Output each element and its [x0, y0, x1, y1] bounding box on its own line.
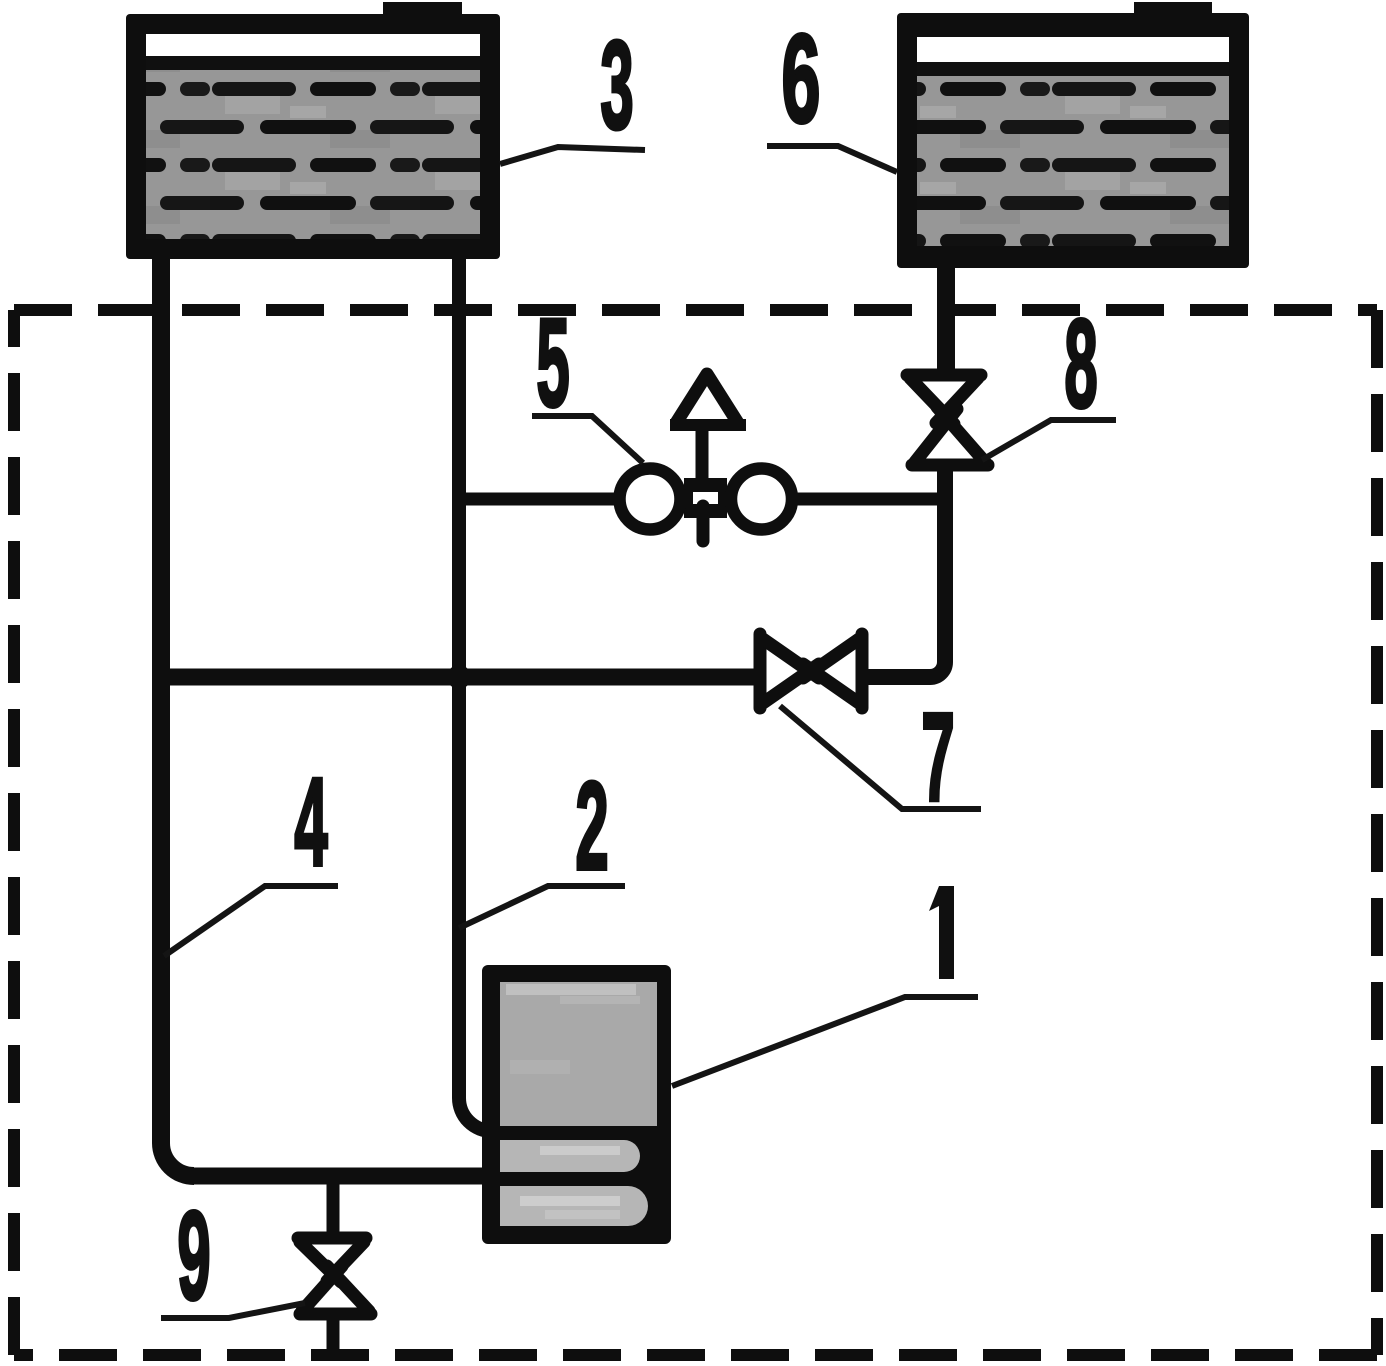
dashed enclosure border	[14, 310, 1377, 1355]
pipe 4 (left vertical from tank 3 to bottom manifold)	[161, 255, 194, 1176]
pipe from tank 6 to valve 8	[937, 264, 955, 376]
regulator outlet pipe	[782, 493, 951, 506]
label 8 with leader	[982, 294, 1116, 460]
valve 9 stem lower	[327, 1313, 340, 1356]
label 6 with leader	[767, 10, 897, 172]
pressure regulator 5	[620, 374, 793, 541]
tank 3	[126, 2, 500, 259]
svg-text:5: 5	[536, 293, 569, 433]
valve 7 (horizontal)	[760, 634, 862, 708]
svg-text:2: 2	[575, 756, 608, 896]
valve 8 (vertical)	[907, 375, 988, 465]
label 2 with leader	[459, 756, 625, 928]
branch pipe to regulator 5	[453, 493, 630, 506]
junction node pipe2/manifold	[447, 665, 471, 689]
heater box 1	[482, 965, 671, 1244]
bottom manifold pipe	[190, 1168, 502, 1185]
cross manifold at y 677	[152, 669, 756, 686]
svg-text:6: 6	[782, 10, 821, 149]
pipe 2 (vertical from tank 3 to heater box)	[459, 255, 505, 1131]
label 5 with leader	[532, 293, 643, 463]
svg-text:8: 8	[1064, 294, 1097, 434]
label 9 with leader	[161, 1186, 305, 1326]
svg-text:7: 7	[921, 687, 954, 827]
tank 6	[897, 2, 1249, 268]
valve 9 stem upper	[327, 1180, 340, 1238]
label 7 with leader	[780, 687, 981, 827]
svg-text:4: 4	[294, 752, 327, 892]
label 3 with leader	[500, 15, 645, 164]
svg-text:3: 3	[600, 15, 633, 155]
pipe valve 8 down to valve 7	[868, 466, 945, 677]
label 4 with leader	[164, 752, 338, 956]
svg-text:9: 9	[177, 1186, 210, 1326]
label 1 with leader	[672, 886, 978, 1086]
valve 9 (vertical drain)	[298, 1238, 371, 1314]
